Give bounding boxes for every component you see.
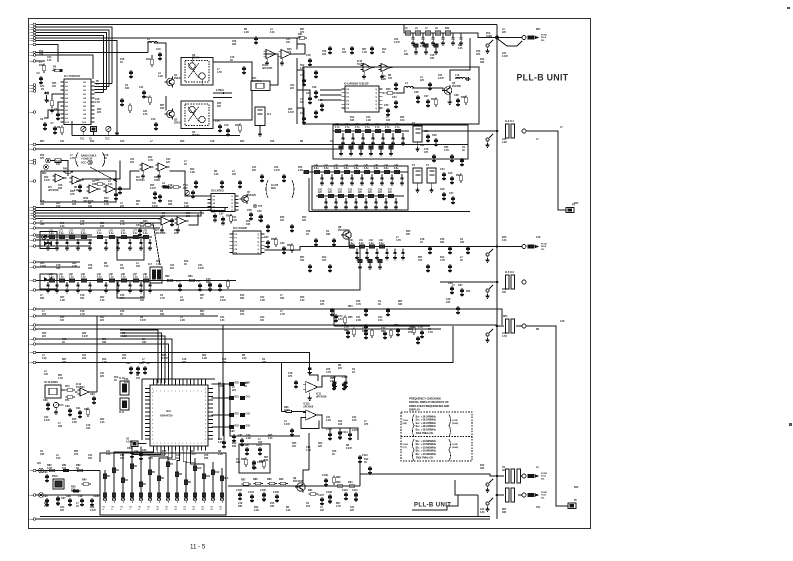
bracket bus outline	[100, 453, 226, 515]
wire node legs	[497, 39, 522, 47]
svg-text:8: 8	[29, 495, 30, 497]
svg-text:L80: L80	[49, 274, 54, 276]
wire Q9 up	[303, 433, 309, 482]
svg-text:C62: C62	[264, 236, 269, 239]
svg-text:5: 5	[29, 213, 30, 215]
svg-text:2.2u: 2.2u	[49, 277, 54, 279]
svg-text:10.7MHz: 10.7MHz	[252, 80, 263, 83]
svg-text:10K: 10K	[40, 224, 45, 226]
svg-text:R45: R45	[406, 230, 411, 233]
svg-text:R63: R63	[188, 275, 193, 278]
svg-text:33K: 33K	[182, 362, 187, 364]
svg-text:C21: C21	[220, 317, 225, 319]
svg-text:X3 10.24MHz: X3 10.24MHz	[44, 381, 59, 384]
svg-text:4.7K: 4.7K	[148, 457, 153, 460]
svg-text:1K: 1K	[460, 260, 463, 262]
capacitor C71	[196, 278, 229, 292]
svg-text:C34: C34	[56, 160, 61, 163]
transistor Q1	[165, 74, 182, 87]
elec C102	[252, 460, 264, 470]
svg-text:C114: C114	[342, 431, 348, 434]
svg-text:3.3u: 3.3u	[349, 243, 354, 245]
IC8 body LC7232	[208, 194, 239, 213]
svg-text:2SK125: 2SK125	[247, 194, 256, 197]
svg-text:33K: 33K	[58, 426, 63, 428]
svg-text:C34: C34	[44, 416, 49, 419]
svg-text:4: 4	[29, 344, 30, 346]
capacitor C12	[151, 118, 158, 131]
svg-text:10K: 10K	[80, 298, 85, 300]
svg-text:1: 1	[193, 391, 194, 393]
capacitor C101	[256, 444, 262, 456]
svg-text:2.2K: 2.2K	[122, 336, 127, 338]
capacitor C80	[230, 430, 236, 443]
svg-text:1K: 1K	[502, 470, 505, 472]
svg-text:C34: C34	[378, 316, 383, 319]
node J3 row	[485, 245, 526, 263]
capacitor C85	[126, 362, 133, 375]
svg-text:L46: L46	[374, 164, 379, 167]
testpoint TP2	[253, 204, 263, 208]
resistor R80	[47, 464, 57, 472]
svg-text:CH-A: CH-A	[403, 419, 409, 422]
svg-text:R67: R67	[200, 295, 205, 297]
svg-text:C96: C96	[43, 495, 48, 498]
svg-text:C54: C54	[358, 188, 363, 191]
svg-text:uPC4558: uPC4558	[316, 395, 327, 398]
svg-text:C87: C87	[146, 362, 151, 365]
svg-text:C18: C18	[230, 57, 235, 59]
svg-text:0.01: 0.01	[108, 184, 113, 186]
op-amp IC5b	[70, 176, 84, 196]
note dashed box	[401, 412, 472, 461]
wire J5 to P5	[526, 326, 568, 506]
fuse F1	[55, 159, 68, 176]
svg-text:R45: R45	[288, 108, 293, 111]
svg-text:C21: C21	[88, 455, 93, 457]
svg-text:4.7K: 4.7K	[428, 331, 433, 334]
svg-text:2: 2	[160, 443, 161, 445]
svg-text:3: 3	[29, 339, 30, 341]
svg-text:L78: L78	[143, 230, 148, 232]
svg-text:L88: L88	[143, 274, 148, 276]
svg-text:R45: R45	[420, 42, 425, 45]
svg-text:C56: C56	[326, 369, 331, 371]
svg-text:R67: R67	[160, 105, 165, 107]
svg-text:C90: C90	[65, 405, 70, 408]
capacitor C62	[264, 236, 270, 249]
svg-text:120: 120	[328, 192, 333, 194]
svg-text:3.3u: 3.3u	[369, 243, 374, 245]
svg-text:0.01: 0.01	[268, 438, 273, 440]
svg-text:FL3 FL4: FL3 FL4	[505, 120, 515, 123]
svg-text:C21: C21	[502, 53, 507, 55]
svg-text:0.01: 0.01	[286, 510, 291, 512]
svg-text:C56: C56	[120, 221, 125, 223]
connector CN-A parts	[528, 33, 547, 42]
svg-text:IC11b: IC11b	[303, 404, 310, 406]
svg-text:C34: C34	[134, 450, 139, 453]
op-amp IC12a	[357, 60, 375, 79]
svg-text:R62: R62	[165, 275, 170, 278]
coil L1	[39, 61, 45, 73]
svg-text:6: 6	[29, 38, 30, 40]
svg-text:C34: C34	[274, 166, 279, 169]
svg-text:L36: L36	[395, 124, 400, 126]
svg-text:10K: 10K	[322, 54, 327, 56]
svg-text:C47: C47	[449, 192, 454, 195]
svg-text:2: 2	[156, 443, 157, 445]
svg-text:R10: R10	[197, 468, 202, 470]
svg-text:47K: 47K	[40, 85, 45, 88]
svg-text:47K: 47K	[408, 331, 413, 334]
svg-text:MHz: MHz	[271, 188, 277, 190]
capacitor C110	[342, 489, 348, 501]
svg-text:C18: C18	[424, 149, 429, 151]
svg-text:C18: C18	[306, 54, 311, 57]
svg-text:0.01: 0.01	[502, 240, 507, 242]
svg-text:C56: C56	[408, 329, 413, 331]
svg-text:C21: C21	[218, 439, 223, 441]
svg-text:C53: C53	[348, 189, 353, 191]
capacitor C99	[78, 495, 99, 507]
svg-text:R45: R45	[502, 236, 507, 239]
svg-text:1K: 1K	[230, 60, 233, 62]
svg-text:TC3: TC3	[59, 405, 64, 407]
svg-text:C21: C21	[326, 417, 331, 419]
capacitor C84	[139, 449, 147, 461]
svg-text:3: 3	[29, 207, 30, 209]
svg-text:C18: C18	[86, 425, 91, 427]
svg-text:1K: 1K	[298, 36, 301, 39]
svg-text:R22: R22	[97, 109, 102, 111]
svg-text:33K: 33K	[204, 458, 209, 460]
svg-text:47K: 47K	[476, 53, 481, 56]
svg-text:4.7K: 4.7K	[444, 149, 449, 152]
svg-text:2.2u: 2.2u	[97, 277, 102, 279]
resistor R85	[241, 457, 247, 467]
svg-text:L32: L32	[355, 124, 360, 126]
wire bundle b3	[36, 212, 204, 214]
svg-text:1K: 1K	[300, 102, 303, 104]
svg-text:10K: 10K	[142, 342, 147, 344]
svg-text:MIC: MIC	[42, 173, 47, 175]
svg-text:C34: C34	[394, 38, 399, 41]
svg-text:TC2: TC2	[105, 139, 110, 141]
svg-text:1K: 1K	[462, 150, 465, 152]
svg-text:10K: 10K	[264, 460, 269, 462]
capacitor C22	[312, 86, 318, 99]
svg-text:2.2u: 2.2u	[69, 233, 74, 235]
svg-text:C98: C98	[66, 495, 71, 498]
svg-text:3: 3	[29, 30, 30, 32]
svg-text:R12: R12	[44, 503, 49, 505]
op-amp IC7b	[174, 217, 189, 235]
wire to node	[470, 33, 497, 38]
wire amp row2	[189, 214, 199, 225]
svg-text:4.7K: 4.7K	[336, 505, 341, 508]
wire bundle b4	[36, 211, 201, 216]
resistor R8	[57, 125, 63, 135]
svg-text:2.2K: 2.2K	[298, 170, 303, 172]
svg-text:C21: C21	[536, 507, 541, 509]
svg-text:1K: 1K	[76, 467, 79, 470]
svg-text:10K: 10K	[280, 298, 285, 300]
label center	[271, 184, 279, 190]
capacitor C103	[236, 489, 242, 501]
svg-text:10K: 10K	[160, 108, 165, 110]
resistor R86	[259, 459, 265, 469]
svg-text:C21: C21	[152, 203, 157, 205]
svg-text:2: 2	[29, 61, 30, 63]
svg-text:R67: R67	[362, 49, 367, 51]
svg-text:0.01: 0.01	[270, 32, 275, 34]
transistor Q9	[293, 477, 305, 493]
svg-text:C18: C18	[62, 339, 67, 341]
capacitor C16	[224, 124, 230, 137]
svg-text:0.047: 0.047	[190, 453, 197, 456]
wire DA	[334, 325, 430, 327]
svg-text:C105: C105	[260, 489, 266, 492]
svg-text:C52: C52	[338, 189, 343, 191]
RX input filter row2	[36, 273, 236, 298]
svg-text:TX-B: TX-B	[541, 495, 546, 497]
title PLL-B UNIT bottom	[414, 503, 451, 509]
svg-text:2.2u: 2.2u	[143, 277, 148, 279]
svg-text:C18: C18	[168, 185, 173, 187]
svg-text:L35: L35	[385, 124, 390, 126]
svg-text:1K: 1K	[62, 342, 65, 344]
capacitor C106	[273, 491, 279, 503]
svg-text:C95: C95	[43, 471, 48, 474]
svg-text:2.2K: 2.2K	[72, 266, 77, 268]
IC8 label	[211, 191, 225, 193]
svg-text:47K: 47K	[364, 423, 369, 426]
svg-text:R22: R22	[190, 451, 195, 453]
svg-text:2.2K: 2.2K	[202, 358, 207, 360]
wire right bus	[496, 25, 498, 520]
svg-text:HD404720: HD404720	[160, 414, 173, 418]
svg-text:FL5 FL6: FL5 FL6	[505, 272, 515, 274]
svg-text:R45: R45	[466, 290, 471, 293]
capacitor C15	[215, 120, 222, 133]
svg-text:R12: R12	[90, 141, 95, 143]
capacitor C23	[318, 99, 324, 112]
svg-text:BPF: BPF	[503, 316, 508, 318]
svg-text:9: 9	[29, 316, 30, 318]
connector CN-B parts	[528, 242, 547, 251]
capacitor C63	[280, 242, 286, 255]
svg-text:L47: L47	[384, 164, 389, 167]
svg-text:R67: R67	[336, 503, 341, 505]
connector P5	[568, 500, 578, 509]
filter FL1	[255, 107, 272, 136]
node J2 row	[485, 120, 526, 147]
svg-text:2: 2	[164, 443, 165, 445]
svg-text:1K: 1K	[306, 234, 309, 236]
svg-text:L77: L77	[133, 230, 138, 232]
capacitor C91	[76, 407, 82, 419]
label IC11b	[303, 404, 314, 409]
svg-text:C58: C58	[247, 209, 252, 212]
svg-text:TP2: TP2	[258, 206, 263, 208]
svg-text:C56: C56	[211, 211, 216, 214]
svg-text:R84: R84	[82, 479, 87, 482]
svg-text:R12: R12	[480, 465, 485, 467]
svg-text:R12: R12	[39, 51, 44, 53]
svg-text:C56: C56	[124, 379, 129, 381]
svg-text:C21: C21	[143, 111, 148, 113]
svg-text:C55: C55	[183, 187, 188, 190]
capacitor C2	[37, 72, 44, 85]
svg-text:+4.5dB 1K: +4.5dB 1K	[81, 157, 93, 160]
elec C97	[56, 496, 66, 506]
svg-text:(5.6M): (5.6M)	[452, 447, 458, 449]
svg-text:R87: R87	[241, 479, 246, 482]
node J5 row	[485, 316, 526, 342]
IC3 microcontroller QFP	[142, 379, 215, 451]
svg-text:R45: R45	[574, 202, 579, 205]
svg-text:1K: 1K	[104, 158, 107, 160]
svg-text:C56: C56	[88, 265, 93, 267]
svg-text:4.7K: 4.7K	[148, 159, 153, 162]
svg-text:C21: C21	[232, 217, 237, 219]
op-amp IC11a	[303, 375, 327, 400]
svg-text:0.01: 0.01	[47, 60, 52, 62]
wires QFP to trimmers	[114, 451, 204, 473]
svg-text:R22: R22	[100, 317, 105, 319]
svg-text:R67: R67	[40, 141, 45, 143]
svg-text:C46: C46	[440, 188, 445, 191]
svg-text:C34: C34	[166, 158, 171, 161]
svg-text:2.2K: 2.2K	[218, 454, 223, 456]
trimmer bank TC4-TC16	[102, 456, 229, 511]
svg-text:2.2K: 2.2K	[254, 510, 259, 512]
node J1 row	[485, 36, 526, 54]
capacitor C50	[76, 180, 82, 193]
svg-text:R85: R85	[241, 458, 246, 461]
svg-text:R32: R32	[235, 414, 240, 416]
left edge connector pins CN1	[29, 23, 36, 521]
svg-text:R12: R12	[40, 155, 45, 157]
resistor R42	[95, 179, 105, 185]
wire d1	[36, 234, 92, 236]
svg-text:R67: R67	[300, 29, 305, 31]
wire bottom link	[455, 480, 478, 517]
capacitor C76	[362, 324, 400, 340]
svg-text:L82: L82	[69, 274, 74, 276]
wire text link	[412, 495, 458, 510]
svg-text:2.2K: 2.2K	[232, 220, 237, 222]
svg-text:33K: 33K	[168, 188, 173, 190]
svg-text:10K: 10K	[222, 362, 227, 364]
svg-text:47K: 47K	[300, 31, 305, 34]
wire row246	[412, 246, 497, 248]
connector CN-D parts	[528, 491, 547, 500]
svg-text:4.7K: 4.7K	[44, 505, 49, 508]
svg-text:1: 1	[29, 235, 30, 237]
svg-text:1: 1	[186, 391, 187, 393]
resistor R6	[46, 98, 54, 113]
capacitor C96	[43, 495, 49, 507]
svg-text:1K: 1K	[244, 386, 247, 388]
svg-text:C70: C70	[176, 280, 181, 283]
svg-text:LOOP: LOOP	[452, 444, 459, 446]
wire Q8	[348, 240, 350, 247]
svg-text:R22: R22	[100, 297, 105, 299]
svg-text:2SC535: 2SC535	[452, 85, 461, 88]
svg-text:C104: C104	[248, 491, 254, 494]
svg-text:R67: R67	[200, 311, 205, 313]
wire J2 to P3	[526, 131, 566, 210]
svg-text:120: 120	[368, 192, 373, 194]
svg-text:R12: R12	[232, 443, 237, 445]
svg-text:C18: C18	[80, 311, 85, 313]
svg-text:C85: C85	[126, 362, 131, 365]
svg-text:1: 1	[201, 391, 202, 393]
svg-text:RXd 7MHz-CH: RXd 7MHz-CH	[416, 431, 433, 435]
svg-text:C18: C18	[104, 155, 109, 157]
capacitor C112	[358, 454, 369, 464]
transformer T3	[412, 164, 422, 192]
svg-text:4.7K: 4.7K	[156, 263, 161, 266]
wire IC4 left	[320, 90, 342, 100]
svg-text:4.7K: 4.7K	[120, 223, 125, 226]
svg-text:C18: C18	[182, 359, 187, 361]
svg-text:C21: C21	[356, 317, 361, 319]
capacitor C113	[326, 428, 332, 441]
svg-text:R11: R11	[206, 476, 211, 478]
svg-text:C21: C21	[286, 39, 291, 41]
svg-text:TA7504: TA7504	[357, 63, 366, 66]
svg-text:C50: C50	[318, 189, 323, 191]
svg-text:47K: 47K	[80, 223, 85, 226]
resistor R13	[144, 95, 151, 105]
svg-text:0.047: 0.047	[140, 319, 147, 322]
svg-text:9: 9	[29, 52, 30, 54]
diode array D3-D7	[212, 382, 301, 449]
wire IC1 right bundle	[95, 81, 113, 93]
svg-text:C101: C101	[256, 444, 262, 447]
resistor R62	[165, 275, 175, 282]
svg-text:1K: 1K	[364, 462, 367, 464]
svg-text:2: 2	[29, 27, 30, 29]
svg-text:C100: C100	[243, 444, 249, 447]
svg-text:C56: C56	[232, 41, 237, 43]
capacitor C66	[448, 282, 454, 295]
svg-text:2: 2	[186, 443, 187, 445]
svg-text:L87: L87	[133, 274, 138, 276]
coil L4	[404, 82, 414, 88]
svg-text:3.3u: 3.3u	[359, 243, 364, 245]
svg-text:10K: 10K	[40, 454, 45, 456]
svg-text:33K: 33K	[440, 242, 445, 244]
svg-text:L40: L40	[314, 164, 319, 167]
svg-text:11 - 5: 11 - 5	[190, 544, 206, 551]
svg-text:47K: 47K	[288, 375, 293, 378]
crystal X2	[126, 438, 138, 447]
svg-text:6.8u: 6.8u	[364, 168, 369, 170]
connector CN-C parts	[528, 472, 547, 481]
svg-text:L41: L41	[324, 164, 329, 167]
svg-text:R34: R34	[456, 174, 461, 177]
svg-text:C18: C18	[446, 299, 451, 301]
svg-text:10K: 10K	[86, 428, 91, 430]
capacitor C59	[257, 210, 263, 223]
IC9 label	[233, 228, 248, 230]
wire g2	[36, 316, 223, 436]
svg-text:C81: C81	[238, 434, 243, 437]
